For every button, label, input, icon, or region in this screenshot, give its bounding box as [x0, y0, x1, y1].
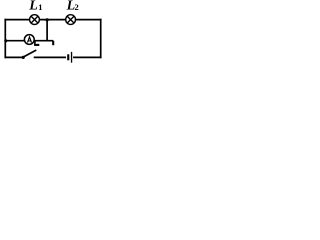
- battery positive plate (long thin): [71, 52, 72, 63]
- switch S contact dot: [22, 56, 25, 59]
- wire small hook stub below middle rail: [34, 41, 39, 45]
- svg-text:2: 2: [75, 2, 79, 12]
- wire bottom-right segment: [74, 56, 101, 58]
- wire left rail: [4, 20, 6, 58]
- wire top rail: [5, 19, 100, 21]
- wire stub down at right end of middle rail: [52, 41, 54, 46]
- label L1: [28, 0, 42, 13]
- ammeter A: [24, 35, 34, 45]
- switch S blade: [24, 50, 36, 57]
- svg-text:L: L: [28, 0, 38, 13]
- node junction dot left rail: [4, 39, 7, 42]
- battery negative plate (short thick): [67, 54, 69, 60]
- wire bottom-middle segment: [34, 56, 66, 58]
- node junction dot top rail: [46, 18, 49, 21]
- wire bottom-left segment: [5, 56, 23, 58]
- wire right rail: [100, 20, 102, 58]
- svg-text:1: 1: [38, 2, 42, 12]
- wire middle rail: [5, 40, 53, 42]
- lamp L1: [30, 15, 40, 25]
- wire junction vertical from top rail: [46, 20, 48, 41]
- lamp L2: [66, 15, 76, 25]
- label L2: [66, 0, 79, 13]
